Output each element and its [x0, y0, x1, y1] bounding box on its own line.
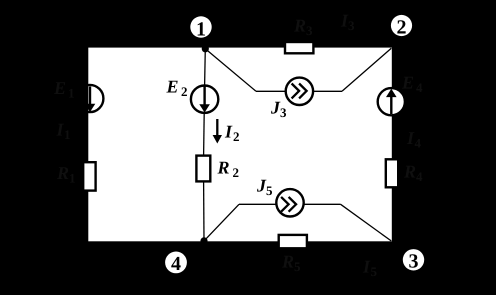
svg-text:R: R	[56, 163, 69, 183]
junction dot node 1	[202, 45, 209, 52]
svg-text:3: 3	[409, 251, 419, 273]
resistor R5 (bottom edge)	[279, 235, 307, 248]
svg-text:3: 3	[306, 23, 313, 38]
svg-text:R: R	[281, 252, 294, 272]
svg-text:1: 1	[68, 86, 75, 101]
svg-text:E: E	[166, 77, 179, 97]
svg-text:1: 1	[64, 127, 71, 142]
wire to J5 circle	[239, 203, 276, 205]
svg-text:2: 2	[181, 84, 188, 99]
svg-text:R: R	[403, 162, 416, 182]
svg-text:5: 5	[294, 259, 301, 274]
node 4	[165, 252, 187, 276]
junction dot node 4	[200, 237, 207, 244]
svg-text:5: 5	[371, 264, 378, 279]
resistor R1	[83, 162, 95, 190]
svg-text:E: E	[53, 78, 66, 98]
svg-text:I: I	[224, 122, 233, 142]
wire R2 to node4	[203, 181, 205, 241]
svg-text:1: 1	[69, 171, 76, 186]
current arrow I2	[213, 119, 222, 144]
svg-text:4: 4	[416, 80, 423, 95]
svg-text:3: 3	[348, 18, 355, 33]
node 2	[391, 15, 412, 39]
wire J3 to bend	[313, 90, 342, 92]
svg-text:R: R	[217, 157, 230, 177]
EMF source E2	[191, 86, 218, 113]
svg-text:1: 1	[196, 19, 206, 41]
wire node1 to E2	[204, 49, 207, 87]
current source J5	[276, 189, 303, 216]
circuit loop interior (white)	[88, 48, 392, 242]
svg-text:5: 5	[266, 183, 273, 198]
svg-text:E: E	[401, 73, 414, 93]
EMF source E4 (right branch)	[378, 88, 405, 115]
svg-text:4: 4	[415, 136, 422, 151]
wire E2 to R2	[203, 113, 206, 156]
node 1	[190, 16, 211, 40]
svg-text:4: 4	[416, 169, 423, 184]
wire node1 diagonal to J3	[205, 49, 256, 92]
resistor R3 (top edge)	[285, 42, 313, 53]
svg-text:3: 3	[280, 105, 287, 120]
wire bend to node2 corner	[342, 48, 391, 91]
wire bend to node3 corner	[341, 204, 392, 241]
svg-text:2: 2	[233, 165, 240, 180]
node 3	[403, 249, 424, 273]
resistor R4	[386, 159, 398, 187]
EMF source E1 (left branch)	[76, 85, 103, 112]
svg-text:2: 2	[233, 129, 240, 144]
wire node4 diagonal to J5	[204, 204, 239, 241]
svg-text:2: 2	[397, 17, 407, 39]
wire to J3 circle	[256, 90, 286, 92]
wire J5 to bend	[304, 203, 341, 205]
resistor R2	[196, 156, 210, 182]
current source J3	[286, 78, 313, 105]
svg-text:4: 4	[171, 253, 181, 275]
svg-text:R: R	[293, 16, 306, 36]
